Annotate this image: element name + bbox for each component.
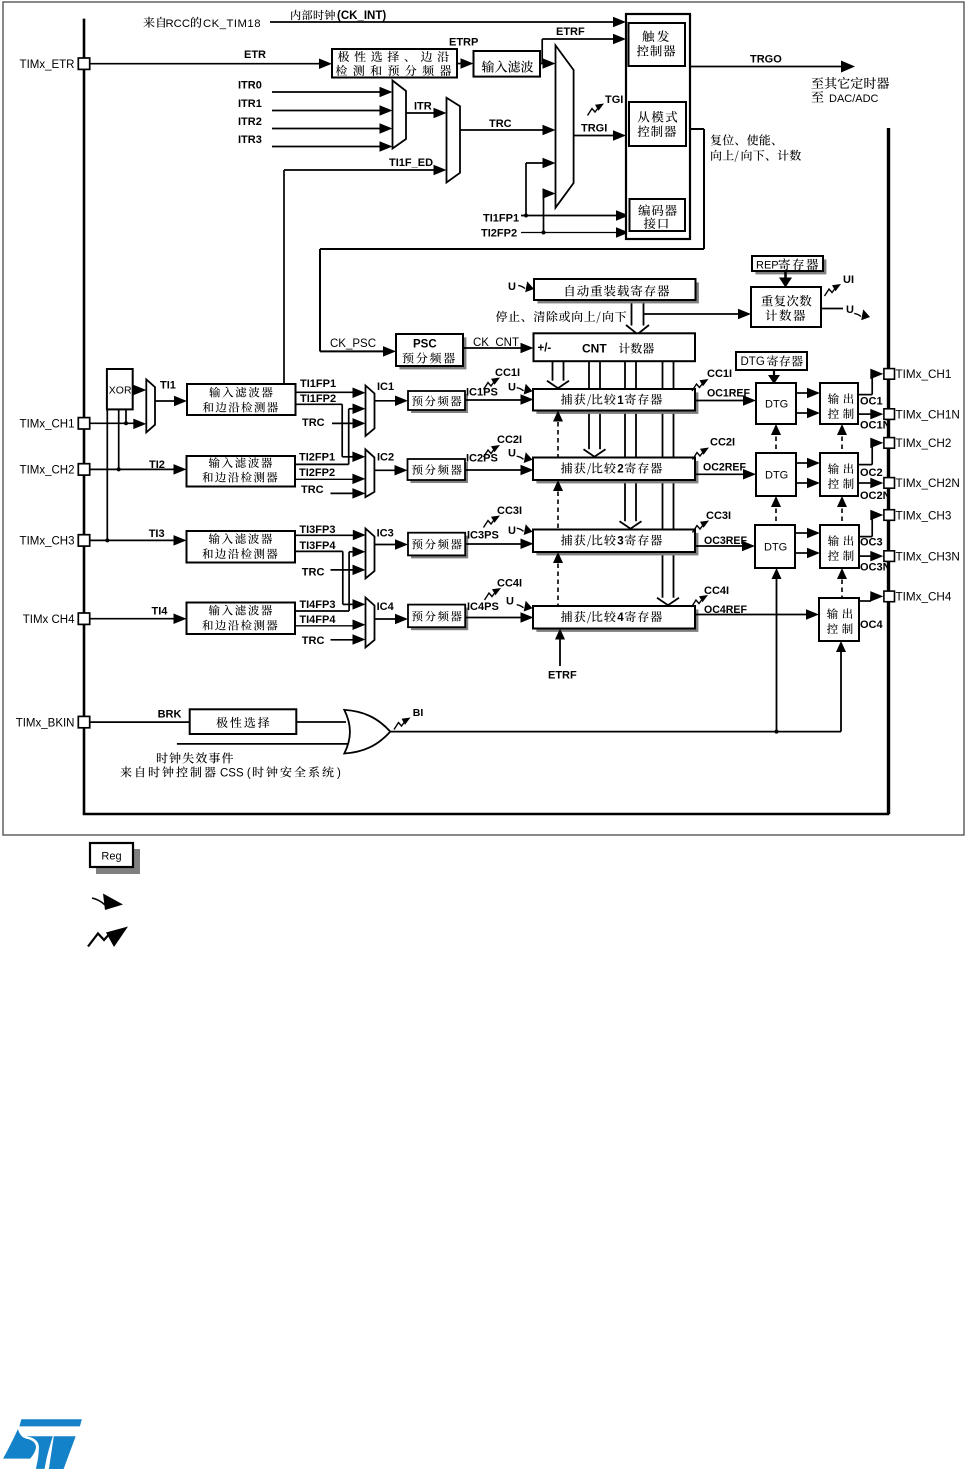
svg-text:IC4PS: IC4PS xyxy=(467,601,499,613)
svg-text:DAC/ADC: DAC/ADC xyxy=(829,93,879,105)
svg-text:TRC: TRC xyxy=(301,484,324,496)
svg-text:CK_TIM18: CK_TIM18 xyxy=(203,18,261,30)
svg-text:ETRF: ETRF xyxy=(556,26,585,38)
svg-text:DTG: DTG xyxy=(764,542,787,554)
svg-text:TI1FP1: TI1FP1 xyxy=(300,378,336,390)
svg-text:OC1: OC1 xyxy=(860,396,883,408)
svg-text:ETRF: ETRF xyxy=(548,670,577,682)
svg-text:(CK_INT): (CK_INT) xyxy=(337,10,386,22)
svg-text:TRGI: TRGI xyxy=(581,123,607,135)
svg-text:U: U xyxy=(506,596,514,608)
svg-text:PSC: PSC xyxy=(413,339,437,351)
svg-text:TI1: TI1 xyxy=(160,380,176,392)
svg-text:TI4: TI4 xyxy=(152,606,169,618)
svg-text:TI2FP1: TI2FP1 xyxy=(299,452,335,464)
svg-text:OC4: OC4 xyxy=(860,619,884,631)
svg-text:OC2N: OC2N xyxy=(860,490,891,502)
svg-text:TIMx CH4: TIMx CH4 xyxy=(23,614,75,626)
svg-text:TRGO: TRGO xyxy=(750,54,782,66)
svg-text:DTG: DTG xyxy=(741,356,765,368)
svg-text:3: 3 xyxy=(617,536,623,548)
svg-text:OC2: OC2 xyxy=(860,467,883,479)
svg-text:ITR0: ITR0 xyxy=(238,80,262,92)
svg-text:TRC: TRC xyxy=(302,635,325,647)
svg-text:4: 4 xyxy=(617,612,624,624)
svg-text:TIMx_CH3: TIMx_CH3 xyxy=(20,536,75,548)
svg-text:TIMx_BKIN: TIMx_BKIN xyxy=(16,717,75,729)
svg-text:IC1: IC1 xyxy=(377,381,394,393)
svg-text:OC1N: OC1N xyxy=(860,420,891,432)
svg-text:BI: BI xyxy=(413,707,424,719)
svg-text:TIMx_CH1: TIMx_CH1 xyxy=(896,368,952,381)
svg-text:OC3N: OC3N xyxy=(860,562,891,574)
svg-text:TRC: TRC xyxy=(302,567,325,579)
svg-text:TI1FP2: TI1FP2 xyxy=(300,393,336,405)
svg-text:TRC: TRC xyxy=(489,118,512,130)
svg-text:REP: REP xyxy=(756,260,779,272)
svg-text:IC2PS: IC2PS xyxy=(466,453,498,465)
svg-text:TIMx_CH3N: TIMx_CH3N xyxy=(896,550,960,563)
svg-text:TI1F_ED: TI1F_ED xyxy=(389,157,433,169)
svg-text:CC2I: CC2I xyxy=(497,434,522,446)
svg-text:CC1I: CC1I xyxy=(707,368,732,380)
svg-text:TIMx_ETR: TIMx_ETR xyxy=(20,59,75,71)
svg-text:TIMx_CH2: TIMx_CH2 xyxy=(896,437,952,450)
svg-text:RCC: RCC xyxy=(166,18,190,30)
svg-text:TI2FP2: TI2FP2 xyxy=(299,467,335,479)
svg-text:IC4: IC4 xyxy=(377,601,395,613)
svg-text:ITR3: ITR3 xyxy=(238,134,262,146)
svg-text:CC3I: CC3I xyxy=(706,510,731,522)
svg-text:OC3: OC3 xyxy=(860,537,883,549)
svg-text:TI3: TI3 xyxy=(149,528,165,540)
svg-text:TI3FP3: TI3FP3 xyxy=(299,524,335,536)
svg-text:TIMx_CH3: TIMx_CH3 xyxy=(896,509,952,522)
svg-text:ITR1: ITR1 xyxy=(238,98,262,110)
svg-text:ETRP: ETRP xyxy=(449,37,478,49)
svg-text:CNT: CNT xyxy=(582,342,607,356)
svg-text:CC1I: CC1I xyxy=(495,367,520,379)
svg-text:IC3PS: IC3PS xyxy=(467,530,499,542)
svg-text:CK_PSC: CK_PSC xyxy=(330,338,376,350)
svg-text:+/-: +/- xyxy=(538,343,552,355)
svg-text:U: U xyxy=(508,448,516,460)
svg-text:UI: UI xyxy=(843,274,854,286)
svg-text:U: U xyxy=(846,304,854,316)
svg-text:CC3I: CC3I xyxy=(497,505,522,517)
svg-text:U: U xyxy=(508,281,516,293)
svg-text:U: U xyxy=(508,382,516,394)
svg-text:IC1PS: IC1PS xyxy=(466,387,498,399)
svg-text:ITR2: ITR2 xyxy=(238,116,262,128)
svg-text:CC4I: CC4I xyxy=(497,578,522,590)
svg-text:TI4FP4: TI4FP4 xyxy=(299,614,336,626)
svg-text:2: 2 xyxy=(617,464,623,476)
svg-text:): ) xyxy=(337,768,341,780)
svg-text:TIMx_CH1N: TIMx_CH1N xyxy=(896,408,960,421)
svg-text:TI1FP1: TI1FP1 xyxy=(483,213,519,225)
svg-text:TGI: TGI xyxy=(605,94,623,106)
svg-text:Reg: Reg xyxy=(101,851,121,863)
svg-text:ITR: ITR xyxy=(414,101,432,113)
svg-text:DTG: DTG xyxy=(765,399,788,411)
svg-text:CC4I: CC4I xyxy=(704,585,729,597)
svg-text:TI4FP3: TI4FP3 xyxy=(299,599,335,611)
svg-text:DTG: DTG xyxy=(765,470,788,482)
svg-text:OC2REF: OC2REF xyxy=(703,462,746,474)
svg-text:1: 1 xyxy=(617,395,624,407)
svg-text:IC2: IC2 xyxy=(377,452,394,464)
svg-text:CC2I: CC2I xyxy=(710,437,735,449)
svg-text:TRC: TRC xyxy=(302,417,325,429)
svg-text:ETR: ETR xyxy=(244,49,266,61)
svg-text:TIMx_CH2: TIMx_CH2 xyxy=(20,465,75,477)
svg-text:U: U xyxy=(508,525,516,537)
svg-text:TIMx_CH2N: TIMx_CH2N xyxy=(896,477,960,490)
svg-text:TIMx_CH4: TIMx_CH4 xyxy=(896,591,952,604)
svg-text:XOR: XOR xyxy=(109,385,132,397)
svg-text:TI3FP4: TI3FP4 xyxy=(299,540,336,552)
svg-text:IC3: IC3 xyxy=(377,528,394,540)
svg-text:TIMx_CH1: TIMx_CH1 xyxy=(20,419,75,431)
svg-text:CSS (: CSS ( xyxy=(220,768,251,780)
svg-text:TI2FP2: TI2FP2 xyxy=(481,228,517,240)
svg-text:BRK: BRK xyxy=(158,709,182,721)
